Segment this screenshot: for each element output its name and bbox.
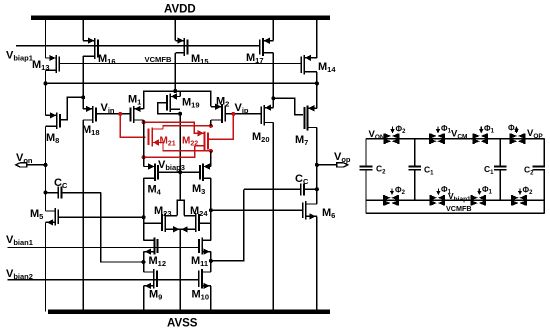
node Vop output wire — [315, 163, 342, 167]
M24 gate wire — [199, 222, 211, 224]
M1 label — [128, 94, 141, 107]
wire M14 drain down — [316, 72, 318, 84]
node Vbiap3 label — [158, 159, 185, 172]
transistor M10 — [199, 269, 211, 289]
M7 gate loop from cascode node — [271, 96, 303, 114]
M16 label — [98, 53, 116, 66]
M8 gate wire loop — [60, 95, 85, 119]
CMFB C1 right column — [499, 139, 501, 201]
M23 label — [154, 205, 172, 218]
M23 gate wire — [144, 222, 162, 224]
svg-text:VCMFB: VCMFB — [145, 55, 173, 64]
transistor M3 — [200, 163, 211, 181]
node Vip input wire — [225, 113, 260, 115]
node Vbiap1 / VCMFB gate line — [16, 45, 260, 47]
capacitor Cc (right) — [244, 183, 319, 195]
wire M9 source to AVSS — [143, 286, 145, 312]
wire AVDD to M15 source — [174, 18, 176, 41]
M24 label — [190, 205, 208, 218]
wire M12 source to M9 drain — [143, 252, 145, 272]
transistor M12 — [144, 238, 158, 255]
wire M23/M24 tail down — [179, 229, 181, 311]
switch S1 (phi2, VON) — [385, 133, 399, 144]
wire M1 drain down left column — [143, 120, 145, 167]
wire M7 drain down (Vop column) — [316, 128, 318, 205]
Cc left label — [54, 177, 68, 190]
M19 label — [182, 97, 200, 110]
S4 clock phi2 — [508, 124, 519, 135]
M8 label — [46, 132, 59, 145]
node VCMFB label (first stage) — [145, 55, 173, 64]
transistor M13 — [46, 55, 60, 73]
switch S4 (phi2, VOP) — [511, 133, 525, 144]
M2 label — [216, 96, 229, 109]
transistor M17 — [260, 38, 274, 56]
wire M11 source to M10 drain — [210, 252, 212, 272]
C1 left label — [424, 165, 434, 177]
transistor M18 — [83, 106, 96, 123]
transistor M9 — [144, 269, 157, 289]
M19 source tap — [179, 91, 181, 97]
wire M17 drain down — [272, 53, 274, 98]
S1 clock phi2 — [390, 125, 406, 136]
M6 gate wire to right column — [209, 208, 303, 212]
node Vbian1 label — [6, 234, 33, 247]
capacitor C1 (right) — [494, 167, 507, 170]
red M22 source to M4-drain node (outer bottom) — [142, 146, 195, 159]
M11 label — [191, 255, 208, 268]
transistor M14 — [301, 55, 317, 75]
capacitor Cc (left) — [44, 187, 101, 199]
node VOP label — [527, 128, 543, 140]
node Vin label — [101, 102, 115, 115]
S3 clock phi1 — [479, 124, 494, 135]
C2 left label — [376, 164, 386, 176]
S5 clock phi2 — [390, 186, 406, 197]
wire AVDD to M17 source — [272, 18, 274, 41]
S2 clock phi1 — [436, 124, 452, 135]
node Von label — [16, 152, 33, 165]
wire M8 drain down (Von column) — [45, 126, 47, 211]
transistor M21 (red) — [149, 127, 163, 146]
red Vin tap to M21 gate — [118, 112, 145, 137]
wire M4 drain down — [143, 178, 145, 240]
wire AVDD to M14 source — [316, 18, 318, 58]
transistor M20 — [261, 105, 273, 126]
wire M6 source down to AVSS — [316, 216, 318, 311]
S8 clock phi2 — [518, 186, 533, 197]
svg-text:AVDD: AVDD — [164, 4, 196, 16]
node Vbiap1 label — [6, 50, 33, 63]
node Vbiap1 label (CMFB) — [448, 191, 471, 203]
transistor M22 (red) — [194, 130, 208, 151]
wire cascode line (M14 drain to M13 drain) — [44, 81, 319, 85]
wire Cc left to M12-source node — [101, 193, 146, 264]
node Vbian2 label — [6, 268, 33, 281]
wire M18 drain down — [82, 120, 84, 312]
AVDD power rail — [31, 4, 330, 18]
node Von output wire — [20, 163, 48, 167]
svg-text:VCMFB: VCMFB — [446, 204, 472, 213]
switch S7 (phi1 bottom) — [472, 195, 486, 206]
CMFB top wire (VON-VCM-VOP) — [366, 138, 544, 140]
transistor M1 — [131, 106, 144, 123]
CMFB left edge — [365, 139, 367, 214]
switch S3 (phi1) — [474, 133, 488, 144]
transistor M6 — [303, 201, 317, 220]
wire M13-M14 gate line — [59, 63, 301, 65]
node Vop terminal — [337, 163, 348, 167]
transistor M4 — [144, 163, 159, 181]
wire right column (red dot to M3 source) — [210, 151, 212, 167]
switch S8 (phi2 bottom) — [512, 195, 526, 206]
wire M13 drain down — [45, 70, 47, 115]
node VCMFB label (CMFB) — [446, 204, 472, 213]
transistor M11 — [199, 238, 211, 255]
node Vbiap3 gate line M4-M3 — [158, 170, 200, 174]
M13 label — [32, 59, 50, 72]
M18 label — [82, 124, 100, 137]
M4 label — [148, 184, 162, 197]
red M21 source to M3-drain node (inner bottom) — [163, 143, 213, 153]
red M1-drain node to M22 drain (outer top) — [142, 120, 204, 133]
capacitor C2 (right) — [532, 167, 545, 170]
capacitor C2 (left) — [360, 167, 373, 170]
M5 label — [30, 208, 43, 221]
transistor M7 — [304, 105, 317, 130]
C1 right label — [484, 164, 494, 176]
wire M17 drain feeds M20 source — [272, 98, 274, 107]
AVSS power rail — [48, 312, 330, 330]
capacitor C1 (left) — [408, 167, 421, 170]
CMFB right edge — [543, 139, 545, 214]
transistor M23 — [162, 213, 181, 233]
transistor M19 (diode connected) — [167, 93, 180, 112]
M19 diode loop gate-drain — [158, 103, 182, 116]
wire AVDD to M13 source — [45, 18, 47, 58]
svg-text:AVSS: AVSS — [167, 318, 198, 330]
M21 label (red) — [160, 136, 176, 148]
wire tail node (M15 drain to M1/M2 sources) — [144, 89, 211, 109]
switch S6 (phi1 bottom) — [431, 195, 445, 206]
wire M3 drain down — [210, 178, 212, 240]
M9 label — [149, 289, 162, 302]
S6 clock phi1 — [436, 185, 451, 196]
M20 label — [252, 131, 270, 144]
M6 label — [322, 207, 335, 220]
node Von terminal — [16, 163, 27, 167]
M12 label — [149, 255, 167, 268]
wire M15 drain to tail node — [174, 53, 176, 91]
M14 label — [318, 61, 336, 74]
node Vbian1 line — [7, 247, 198, 249]
M3 label — [192, 183, 205, 196]
node VCM label — [451, 129, 467, 141]
wire M14 drain feeds M7 source — [316, 83, 318, 108]
wire M23/M24 drain split — [177, 200, 184, 215]
red M21 drain to M2-drain node (inner top) — [163, 124, 213, 129]
red M22 gate to Vip tap — [208, 112, 235, 139]
transistor M8 — [46, 112, 60, 129]
switch S5 (phi2 bottom) — [384, 195, 398, 206]
wire AVDD to M16 source — [82, 18, 84, 41]
M17 label — [246, 52, 264, 65]
transistor M5 — [46, 208, 59, 226]
wire M16 drain to M18 source — [82, 56, 84, 109]
node Vop label — [334, 151, 351, 164]
transistor M2 — [211, 104, 225, 123]
C2 right label — [524, 165, 534, 177]
wire M5 source down to AVSS — [45, 222, 47, 311]
node Vip label — [235, 102, 249, 115]
wire Cc right to M11-source node — [209, 189, 244, 263]
wire M20 drain down — [272, 123, 274, 312]
M22 label (red) — [182, 136, 198, 148]
M10 label — [192, 289, 210, 302]
CMFB bottom wire (Vbiap1 row) — [366, 199, 544, 201]
transistor M15 — [175, 38, 187, 56]
M5 gate wire to left column — [58, 215, 145, 219]
node Vbian2 line — [7, 279, 198, 281]
transistor M24 — [180, 213, 199, 233]
M7 label — [295, 134, 308, 147]
CMFB VCMFB bottom rail — [366, 212, 544, 214]
node Vin input wire — [97, 113, 131, 115]
CMFB C1 left column — [414, 139, 416, 201]
S7 clock phi1 — [477, 185, 492, 196]
wire M10 source to AVSS — [210, 286, 212, 312]
switch S2 (phi1) — [430, 133, 444, 144]
wire M2 drain down right column — [210, 120, 212, 126]
node VON label — [369, 129, 385, 141]
M15 label — [191, 53, 209, 66]
wire M19 drain down (Vbiap3 trunk) — [179, 114, 181, 201]
Cc right label — [295, 173, 309, 186]
transistor M16 — [83, 38, 98, 60]
